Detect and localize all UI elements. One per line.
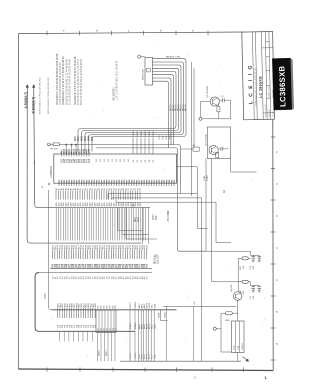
bus line B with label: [32, 85, 150, 208]
connector grid block lower middle: [96, 305, 117, 333]
svg-text:M5: M5: [115, 305, 117, 309]
svg-text:X9: X9: [149, 159, 151, 162]
svg-text:OUT: OUT: [138, 217, 140, 222]
sub-IC fan vertical and return wires to main IC top: [78, 61, 186, 152]
black part-number tab LC386SXB: [272, 58, 294, 110]
sub-IC U2 box: [143, 58, 153, 86]
svg-text:C19: C19: [250, 295, 252, 300]
wire from middle rows to lower bus: [44, 190, 51, 310]
svg-text:M3: M3: [103, 305, 105, 309]
reset IC block PST518: [232, 321, 245, 353]
svg-text:15P: 15P: [253, 265, 255, 269]
svg-text:XTAL: XTAL: [203, 175, 206, 181]
title block: [242, 31, 275, 119]
svg-text:OSC3: OSC3: [133, 130, 135, 137]
svg-text:50: 50: [147, 276, 149, 279]
svg-text:Q1 2SC945: Q1 2SC945: [207, 85, 209, 97]
pin band R1 below IC labels and stubs: [56, 188, 142, 207]
svg-text:C18: C18: [250, 265, 252, 270]
svg-text:NOTE: B BUS 0-7 PULL UP 47K-VC: NOTE: B BUS 0-7 PULL UP 47K-VCC: [48, 77, 50, 114]
svg-text:M0: M0: [100, 305, 102, 309]
svg-text:VREF: VREF: [158, 312, 160, 318]
svg-text:X3: X3: [153, 159, 155, 162]
svg-text:b: b: [160, 29, 162, 33]
oscillator cell 2 box: [207, 127, 230, 159]
svg-text:T6S: T6S: [96, 158, 98, 162]
pin list note GND: [62, 56, 71, 105]
title block logo text SANYO: [248, 64, 258, 106]
wires around reset block: [221, 300, 238, 361]
svg-text:SDA: SDA: [153, 324, 156, 329]
svg-text:OSC9: OSC9: [149, 130, 151, 137]
svg-text:RM0: RM0: [75, 135, 77, 141]
svg-text:CLK OUT: CLK OUT: [158, 253, 160, 264]
svg-text:MDT0: MDT0: [99, 349, 101, 356]
svg-text:RM EXT CTRL: RM EXT CTRL: [166, 57, 181, 59]
svg-text:XT9: XT9: [170, 135, 172, 140]
svg-text:RM5: RM5: [92, 135, 94, 141]
svg-text:4: 4: [276, 246, 278, 250]
main IC top pin row cluster B: [133, 130, 155, 163]
bottom horizontal rail wire: [120, 360, 241, 362]
svg-text:REV 1.0: REV 1.0: [269, 110, 271, 117]
svg-text:OSC3: OSC3: [153, 130, 155, 137]
svg-text:3: 3: [276, 182, 278, 186]
lower enclosure box left edge: [35, 273, 152, 332]
svg-text:9: 9: [34, 161, 36, 165]
labels above IC right section: [159, 135, 172, 140]
svg-text:47K: 47K: [243, 265, 245, 269]
capacitor C5: [218, 147, 228, 151]
wire from IC right edge to oscillator column: [177, 167, 198, 194]
svg-text:XT6: XT6: [166, 135, 168, 140]
pin list note NC NOTE: [112, 60, 118, 101]
svg-text:XT2: XT2: [163, 135, 165, 140]
resistor R4 vertical: [216, 152, 219, 157]
svg-text:M2: M2: [112, 305, 114, 309]
transistor Q2 oscillator: [205, 133, 218, 154]
transistor Q1 oscillator: [207, 85, 220, 106]
svg-text:SDA: SDA: [153, 303, 156, 308]
svg-text:T6S: T6S: [116, 158, 118, 162]
svg-text:P/N LC-UF-0G: P/N LC-UF-0G: [265, 104, 267, 117]
svg-text:CONT: CONT: [207, 174, 209, 181]
svg-text:1CH2: 1CH2: [44, 293, 47, 300]
frame zone tick marks top: [47, 29, 208, 36]
pin list note NC numbers: [74, 56, 83, 105]
title block part number LC3865XB: [259, 76, 263, 98]
svg-text:1: 1: [265, 375, 268, 380]
stepped wire run 3: [116, 200, 231, 243]
svg-text:PA0: PA0: [146, 263, 149, 268]
svg-text:RM C6: RM C6: [185, 104, 187, 111]
RC filter row 1 resistor R17: [238, 251, 250, 292]
svg-text:K00: K00: [147, 245, 149, 250]
svg-text:RM1: RM1: [78, 135, 80, 141]
labels on sub-IC wires: [170, 104, 187, 111]
svg-text:C3: C3: [221, 96, 225, 98]
frame zone tick marks right: [271, 137, 278, 360]
svg-text:X1: X1: [141, 159, 143, 162]
svg-text:T8S: T8S: [108, 158, 110, 162]
svg-text:D6: D6: [174, 179, 176, 183]
svg-text:R1 47K: R1 47K: [51, 149, 59, 151]
svg-text:Q2 2SC945: Q2 2SC945: [205, 133, 207, 145]
title block field cells and small text: [262, 42, 275, 117]
svg-text:NOTE: A BUS 0-7 PULL UP 47K-VC: NOTE: A BUS 0-7 PULL UP 47K-VCC: [39, 77, 42, 114]
svg-text:MOUT: MOUT: [130, 322, 132, 329]
svg-text:+5V COMP: +5V COMP: [168, 210, 170, 222]
off-page arrow bottom right: [243, 357, 249, 362]
svg-text:RM01 2SB: RM01 2SB: [143, 69, 145, 80]
svg-text:X3: X3: [133, 159, 135, 162]
resistor R2 vertical: [217, 104, 220, 119]
svg-text:L C E I I G: L C E I I G: [248, 64, 255, 104]
svg-text:PST: PST: [234, 345, 236, 350]
svg-text:PWM0: PWM0: [135, 322, 137, 329]
svg-text:RM3: RM3: [85, 135, 87, 141]
svg-text:12 24 36 48 52 64 76 82 94 16: 12 24 36 48 52 64 76 82 94 16 28 32 46 5…: [69, 58, 72, 105]
svg-text:5: 5: [276, 310, 278, 314]
wires descending from oscillator cells: [203, 159, 251, 282]
svg-text:c: c: [128, 30, 130, 33]
stepped wire run 1: [108, 194, 207, 229]
svg-text:2: 2: [276, 150, 278, 154]
main IC inside top labels middle: [96, 158, 130, 162]
labels column right of band R2: [135, 210, 170, 264]
svg-text:RM2: RM2: [82, 135, 84, 141]
pull-up resistor R1 with terminal: [48, 143, 63, 151]
svg-text:P89: P89: [89, 148, 91, 153]
svg-text:SHEET 1 OF 2: SHEET 1 OF 2: [268, 85, 270, 98]
svg-text:RES: RES: [225, 320, 230, 322]
crystal component right of IC: [180, 145, 199, 151]
lower main bus wire thick: [52, 309, 177, 311]
svg-text:PWM0: PWM0: [135, 352, 137, 359]
oscillator cell 1 loop wires: [201, 100, 231, 119]
middle connector band R2 rows: [50, 245, 152, 279]
svg-text:MOUT: MOUT: [130, 352, 132, 359]
step wire right of lower bus: [158, 310, 167, 321]
svg-text:VDD5: VDD5: [164, 311, 166, 318]
wire RM EXT with label: [153, 57, 192, 196]
svg-text:RES/Vpp: RES/Vpp: [154, 254, 156, 264]
svg-text:T2S: T2S: [112, 158, 114, 162]
svg-text:LC386SXB: LC386SXB: [277, 65, 287, 107]
RC filter row 1 caps to ground: [250, 255, 261, 269]
svg-text:50 51 52 54 55 56 57 60 61 62: 50 51 52 54 55 56 57 60 61 62 64 65 66 6…: [80, 58, 83, 105]
svg-text:47K: 47K: [243, 290, 245, 294]
svg-text:a: a: [42, 185, 44, 189]
terminal circle OSC IN: [199, 117, 202, 120]
svg-text:X7: X7: [137, 159, 139, 162]
svg-text:MOUT: MOUT: [130, 301, 132, 308]
stepped wire run 2: [112, 198, 202, 361]
svg-text:+5V: +5V: [194, 301, 196, 305]
svg-text:OSC1: OSC1: [141, 130, 143, 137]
middle step wires with columns: [118, 208, 157, 245]
terminal circle J1: [138, 55, 145, 58]
svg-text:SCL: SCL: [151, 324, 153, 329]
main IC U1 body LC3865XB: [50, 154, 176, 183]
sub-IC U2 pin fan wires to right: [153, 59, 187, 84]
signal wires with labels lower middle: [130, 301, 156, 361]
svg-text:4: 4: [276, 278, 278, 282]
svg-text:LC 3865XB: LC 3865XB: [259, 76, 263, 98]
svg-text:AZ: AZ: [223, 189, 226, 193]
svg-text:75: 75: [140, 188, 142, 191]
bus line A with label: [24, 85, 141, 244]
frame zone tick marks bottom: [47, 368, 268, 381]
svg-text:T4S: T4S: [104, 158, 106, 162]
svg-text:TEST: TEST: [153, 214, 155, 220]
svg-text:3: 3: [276, 214, 278, 218]
svg-text:SCL: SCL: [151, 303, 153, 308]
svg-text:LC3865XB: LC3865XB: [50, 166, 53, 178]
svg-text:X1: X1: [193, 145, 196, 147]
svg-text:5VD: 5VD: [156, 215, 158, 220]
svg-text:T8S: T8S: [128, 158, 130, 162]
stubs below lower enclosure edge: [60, 331, 93, 341]
wires between band R1 and middle connector: [56, 208, 145, 241]
terminal circle reset input: [213, 313, 221, 352]
RC filter row 2 resistor R18: [240, 280, 251, 294]
capacitor C3: [219, 96, 230, 102]
svg-text:OSC7: OSC7: [137, 130, 139, 137]
tiny circle marker at IC bottom left: [48, 183, 50, 185]
scan speckle noise: [27, 36, 266, 366]
svg-text:MDT1: MDT1: [106, 349, 108, 356]
svg-text:XT9: XT9: [159, 135, 161, 140]
svg-text:M9: M9: [109, 305, 111, 309]
svg-text:e: e: [63, 30, 65, 33]
svg-text:1 14 17 24 36 47 58 2 15 21 28: 1 14 17 24 36 47 58 2 15 21 28 39 44: [116, 60, 119, 101]
svg-text:CODE: CODE: [273, 110, 275, 116]
svg-text:M6: M6: [106, 305, 108, 309]
wire run oscillator to right area: [231, 159, 257, 173]
drawing frame border: [18, 32, 273, 371]
lower connector band R3 rows: [58, 303, 98, 328]
svg-text:Q4 2SC: Q4 2SC: [231, 284, 233, 292]
wires below connector grid to bottom rail: [98, 333, 116, 362]
svg-text:d: d: [96, 29, 98, 33]
svg-text:T0S: T0S: [120, 158, 122, 162]
svg-text:R17: R17: [240, 265, 242, 270]
svg-text:5: 5: [276, 342, 278, 346]
svg-text:WDT: WDT: [135, 216, 137, 222]
resistor R16 on Q4 base: [221, 312, 238, 322]
svg-text:15P: 15P: [253, 295, 255, 299]
svg-text:RESET: RESET: [242, 342, 244, 349]
svg-text:2: 2: [194, 376, 196, 380]
svg-text:OSC5: OSC5: [145, 130, 147, 137]
junction dots on rail with stub wires: [65, 144, 76, 154]
svg-text:X5: X5: [145, 159, 147, 162]
main IC top pin row cluster A: [61, 148, 92, 163]
svg-text:SCL: SCL: [151, 354, 153, 359]
svg-text:SDA: SDA: [153, 354, 156, 359]
labels on wires entering IC top: [75, 135, 94, 141]
svg-text:T0S: T0S: [100, 158, 102, 162]
wire lower bus to reset area: [163, 301, 236, 362]
svg-text:A78: A78: [88, 158, 91, 163]
main IC outer boundary wire: [62, 145, 206, 252]
wire extra vertical right of sub-IC: [193, 68, 195, 148]
RC filter row 2 caps to ground: [250, 286, 261, 300]
svg-text:M7: M7: [97, 305, 99, 309]
pin list note VCC: [56, 53, 62, 105]
svg-text:T4S: T4S: [124, 158, 126, 162]
main IC bottom pin row with labels: [59, 179, 176, 186]
svg-text:RM4: RM4: [89, 135, 91, 141]
transistor Q4: [231, 284, 242, 301]
svg-text:PWM0: PWM0: [135, 301, 137, 308]
